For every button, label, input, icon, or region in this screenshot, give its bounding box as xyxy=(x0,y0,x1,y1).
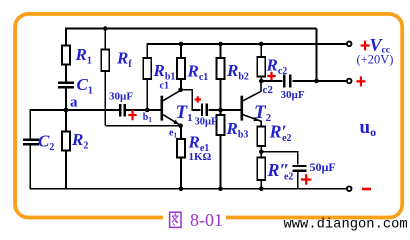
svg-text:50µF: 50µF xyxy=(310,160,336,174)
svg-text:30µF: 30µF xyxy=(109,91,133,103)
svg-text:e1: e1 xyxy=(169,128,177,140)
svg-text:www.diangon.com: www.diangon.com xyxy=(284,217,408,233)
svg-text:R′e2: R′e2 xyxy=(269,122,292,145)
svg-text:Rf: Rf xyxy=(116,49,132,71)
svg-text:8-01: 8-01 xyxy=(190,210,223,230)
svg-text:30µF: 30µF xyxy=(281,89,305,101)
svg-text:T1: T1 xyxy=(176,102,193,124)
svg-text:Rb3: Rb3 xyxy=(226,119,249,141)
svg-text:Rc2: Rc2 xyxy=(266,56,288,78)
svg-text:a: a xyxy=(70,95,78,111)
svg-text:Rb2: Rb2 xyxy=(226,61,249,83)
svg-text:R″e2: R″e2 xyxy=(267,160,294,183)
svg-text:uo: uo xyxy=(360,117,377,139)
svg-text:30µF: 30µF xyxy=(195,117,218,128)
svg-text:(+20V): (+20V) xyxy=(357,53,394,67)
svg-text:c1: c1 xyxy=(160,81,169,92)
svg-text:R2: R2 xyxy=(71,130,88,152)
svg-text:T2: T2 xyxy=(254,102,272,124)
svg-text:c2: c2 xyxy=(263,84,274,96)
svg-text:R1: R1 xyxy=(75,45,92,67)
svg-text:b1: b1 xyxy=(143,112,153,124)
svg-text:1KΩ: 1KΩ xyxy=(189,151,212,163)
svg-text:Rc1: Rc1 xyxy=(187,62,209,84)
svg-text:C1: C1 xyxy=(77,75,93,97)
svg-text:Rb1: Rb1 xyxy=(153,61,176,83)
svg-text:C2: C2 xyxy=(38,132,54,154)
